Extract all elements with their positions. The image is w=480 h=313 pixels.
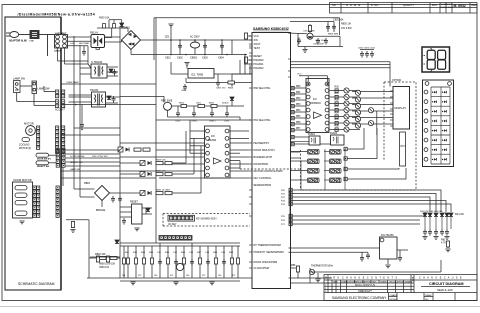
svg-text:R32: R32 xyxy=(335,100,340,102)
svg-text:D81 D82 D83 D84 D85: D81 D82 D83 D84 D85 xyxy=(420,211,443,213)
svg-text:R829 10K: R829 10K xyxy=(156,159,166,161)
svg-text:XIN: XIN xyxy=(254,39,258,42)
svg-text:XOUT: XOUT xyxy=(254,43,261,46)
svg-text:DRAWN: DRAWN xyxy=(380,280,387,283)
svg-text:ADAPTOR ALIM: ADAPTOR ALIM xyxy=(9,39,27,42)
svg-text:C801: C801 xyxy=(165,56,171,59)
svg-text:N A M E: N A M E xyxy=(346,3,361,7)
svg-text:LAMP SW: LAMP SW xyxy=(13,77,25,81)
svg-text:C820 C821 C822: C820 C821 C822 xyxy=(358,48,376,50)
svg-text:4.7K: 4.7K xyxy=(441,242,446,245)
svg-text:C806: C806 xyxy=(181,90,187,92)
svg-text:NTC: NTC xyxy=(401,146,406,148)
svg-text:C802: C802 xyxy=(177,56,183,59)
svg-text:RESET: RESET xyxy=(254,55,263,58)
svg-text:DOOR CHECK/PWM: DOOR CHECK/PWM xyxy=(254,261,278,264)
svg-text:PB4: PB4 xyxy=(296,110,301,112)
svg-text:KEY CONTROL: KEY CONTROL xyxy=(254,177,272,180)
svg-text:C807 470: C807 470 xyxy=(216,88,226,90)
svg-text:C813: C813 xyxy=(224,121,230,123)
svg-text:473: 473 xyxy=(170,275,173,277)
svg-text:PB2: PB2 xyxy=(296,98,301,100)
svg-text:DOOR SW/LATCH: DOOR SW/LATCH xyxy=(254,149,275,152)
svg-text:P81 SEL/CTRL: P81 SEL/CTRL xyxy=(254,119,272,122)
svg-text:/Disc/Model/M4058/New-a.tif/w-: /Disc/Model/M4058/New-a.tif/w-w1154 xyxy=(18,13,96,17)
svg-text:BRIDGE: BRIDGE xyxy=(96,209,106,212)
svg-text:RB81: RB81 xyxy=(84,182,91,185)
svg-text:MCN-J2X9/YLN: MCN-J2X9/YLN xyxy=(355,283,375,287)
svg-text:RL801: RL801 xyxy=(308,133,316,136)
svg-text:PB5: PB5 xyxy=(296,116,301,118)
svg-text:BD801: BD801 xyxy=(122,26,130,30)
svg-text:P80 SEL/CTRL: P80 SEL/CTRL xyxy=(254,87,272,90)
svg-text:L801: L801 xyxy=(196,102,202,104)
svg-text:COOLING: COOLING xyxy=(19,145,30,147)
svg-text:103: 103 xyxy=(154,275,157,277)
svg-text:NEUTRAL: NEUTRAL xyxy=(79,42,90,45)
svg-text:DOOR SW (P): DOOR SW (P) xyxy=(37,158,51,160)
svg-text:IC2: IC2 xyxy=(313,98,317,101)
svg-text:F800 15A: F800 15A xyxy=(99,17,110,20)
svg-text:BUZZER/LATCH: BUZZER/LATCH xyxy=(254,156,273,159)
svg-text:LM2904: LM2904 xyxy=(208,140,217,142)
svg-text:SENSOR/PWM: SENSOR/PWM xyxy=(254,184,271,187)
svg-text:LAMP 20W: LAMP 20W xyxy=(38,88,51,91)
svg-text:DISPLAY: DISPLAY xyxy=(395,106,407,110)
svg-text:PB1: PB1 xyxy=(296,92,301,94)
svg-text:472: 472 xyxy=(232,275,235,277)
svg-text:R34: R34 xyxy=(335,113,340,115)
svg-text:RL802: RL802 xyxy=(330,132,338,135)
svg-text:PB6: PB6 xyxy=(296,122,301,124)
svg-text:CHART: CHART xyxy=(390,294,398,297)
svg-text:REF: REF xyxy=(472,3,478,7)
svg-text:103: 103 xyxy=(186,275,189,277)
svg-text:P02/AN2: P02/AN2 xyxy=(254,67,265,70)
svg-text:M A R K: M A R K xyxy=(325,277,340,280)
svg-text:2ND CONV SW: 2ND CONV SW xyxy=(92,156,108,158)
svg-text:PB7: PB7 xyxy=(296,128,301,130)
svg-text:C814 100P: C814 100P xyxy=(315,40,326,42)
svg-text:ZD801: ZD801 xyxy=(222,102,229,104)
svg-text:SEW-4-10X: SEW-4-10X xyxy=(437,288,453,292)
svg-text:R806: R806 xyxy=(228,88,234,90)
svg-text:VCC: VCC xyxy=(254,35,259,38)
svg-text:103: 103 xyxy=(218,275,221,277)
svg-text:APPRVD: APPRVD xyxy=(397,280,405,283)
svg-text:SCHEMATIC DIAGRAM: SCHEMATIC DIAGRAM xyxy=(18,282,55,286)
svg-text:NO.: NO. xyxy=(425,299,429,301)
svg-text:222: 222 xyxy=(138,275,141,277)
svg-text:RESET: RESET xyxy=(130,201,139,204)
svg-text:HEATER/PKT: HEATER/PKT xyxy=(254,142,270,145)
svg-text:C H A N G E C O N T E N T S: C H A N G E C O N T E N T S xyxy=(342,277,398,280)
svg-text:DATE: DATE xyxy=(333,280,338,283)
svg-text:R30: R30 xyxy=(335,87,340,89)
svg-text:CE812: CE812 xyxy=(209,121,216,123)
svg-text:KID65004: KID65004 xyxy=(310,102,321,105)
svg-text:R810: R810 xyxy=(179,102,185,104)
svg-text:DRAW: DRAW xyxy=(425,294,433,297)
svg-text:MODEL: MODEL xyxy=(390,299,399,301)
svg-text:R831 1K 0805: R831 1K 0805 xyxy=(156,189,171,191)
svg-text:SMECD/2/T: SMECD/2/T xyxy=(358,289,372,293)
svg-text:C H A N G E C A U S E: C H A N G E C A U S E xyxy=(419,277,462,280)
svg-text:SAMSUNG ELECTRONIC COMPANY: SAMSUNG ELECTRONIC COMPANY xyxy=(332,296,387,300)
svg-text:C809 104: C809 104 xyxy=(99,267,110,269)
svg-text:CN KEY: CN KEY xyxy=(168,224,177,226)
svg-text:MOTOR (F): MOTOR (F) xyxy=(19,148,31,150)
svg-text:MOTOR CONTROL/PWM: MOTOR CONTROL/PWM xyxy=(254,170,283,173)
svg-text:222: 222 xyxy=(202,275,205,277)
svg-text:KEY BOARD ASSY: KEY BOARD ASSY xyxy=(196,218,217,221)
svg-text:RT THERMISTOR/PWM: RT THERMISTOR/PWM xyxy=(254,244,281,247)
svg-text:103: 103 xyxy=(122,275,125,277)
svg-text:R809 3M3: R809 3M3 xyxy=(328,34,339,36)
svg-text:M. 6932: M. 6932 xyxy=(454,4,466,8)
svg-text:TRANS: TRANS xyxy=(90,89,99,92)
svg-text:R33: R33 xyxy=(335,106,340,108)
svg-text:QUALITY: QUALITY xyxy=(403,3,414,7)
svg-text:DOOR SENSE: DOOR SENSE xyxy=(70,156,85,158)
svg-text:P01/AN1: P01/AN1 xyxy=(254,63,265,66)
svg-text:C810: C810 xyxy=(175,121,181,123)
svg-text:R830 10K: R830 10K xyxy=(156,170,166,172)
svg-text:D. NO: D. NO xyxy=(371,3,378,7)
svg-text:DOOR MOTOR: DOOR MOTOR xyxy=(14,178,32,182)
svg-text:C815 100P: C815 100P xyxy=(313,44,324,46)
svg-text:KEY/AN: KEY/AN xyxy=(455,213,464,216)
svg-text:ZD1: ZD1 xyxy=(165,36,170,39)
svg-text:DOOR/PWM: DOOR/PWM xyxy=(254,163,268,166)
svg-text:S.TRANS: S.TRANS xyxy=(91,60,103,64)
svg-text:VCC: VCC xyxy=(297,74,302,76)
svg-text:SELECT SW: SELECT SW xyxy=(70,162,84,164)
svg-text:DAT: DAT xyxy=(432,3,437,7)
svg-text:CE811: CE811 xyxy=(191,121,198,123)
svg-text:CE801: CE801 xyxy=(190,56,198,59)
svg-text:C803: C803 xyxy=(202,56,208,59)
svg-text:LINE: LINE xyxy=(29,41,34,43)
svg-text:R35: R35 xyxy=(335,119,340,121)
svg-text:ACCENT: ACCENT xyxy=(55,109,65,112)
svg-text:OSC 4.19M: OSC 4.19M xyxy=(303,31,315,33)
svg-text:SAMSUNG KS88C4032: SAMSUNG KS88C4032 xyxy=(253,27,289,31)
svg-text:R36: R36 xyxy=(335,126,340,128)
svg-text:R808 1/2W 10K: R808 1/2W 10K xyxy=(99,264,116,266)
svg-text:IC9 78L05S: IC9 78L05S xyxy=(381,234,394,237)
svg-text:RELAY: RELAY xyxy=(90,31,99,35)
svg-text:AC 250V: AC 250V xyxy=(190,36,200,39)
svg-text:CLOCK/PWM: CLOCK/PWM xyxy=(254,267,269,270)
svg-text:P00/AN0: P00/AN0 xyxy=(254,59,265,62)
svg-text:THERMISTOR 50Hz: THERMISTOR 50Hz xyxy=(311,265,334,268)
svg-text:R31: R31 xyxy=(335,93,340,95)
svg-text:CIRCUIT DIAGRAM: CIRCUIT DIAGRAM xyxy=(429,282,464,286)
svg-text:LIVE: LIVE xyxy=(70,43,75,45)
svg-text:10V 0.5W: 10V 0.5W xyxy=(341,27,352,30)
svg-text:NO: NO xyxy=(332,3,336,7)
svg-text:R802 10K: R802 10K xyxy=(95,253,106,256)
svg-text:R86: R86 xyxy=(291,264,296,267)
svg-text:R811: R811 xyxy=(209,102,215,104)
svg-text:PB3: PB3 xyxy=(296,104,301,106)
svg-text:SELECT SW: SELECT SW xyxy=(37,166,49,168)
svg-text:MOTOR: MOTOR xyxy=(24,122,34,126)
svg-text:OVEN LAMP: OVEN LAMP xyxy=(66,81,79,84)
svg-text:OPTION: OPTION xyxy=(392,79,401,82)
svg-text:CN801: CN801 xyxy=(54,51,62,53)
svg-text:TEST: TEST xyxy=(254,47,261,50)
svg-text:C804: C804 xyxy=(218,56,224,59)
svg-text:R805 1M: R805 1M xyxy=(341,23,351,26)
svg-text:HUMIDITY SENSOR/PWM: HUMIDITY SENSOR/PWM xyxy=(254,251,284,254)
svg-text:PB0: PB0 xyxy=(296,86,301,88)
svg-text:LAMP SW: LAMP SW xyxy=(70,168,81,171)
svg-text:C805 104: C805 104 xyxy=(333,19,344,22)
svg-text:REG 5008: REG 5008 xyxy=(161,99,173,102)
svg-text:IC1 7805: IC1 7805 xyxy=(191,73,204,77)
